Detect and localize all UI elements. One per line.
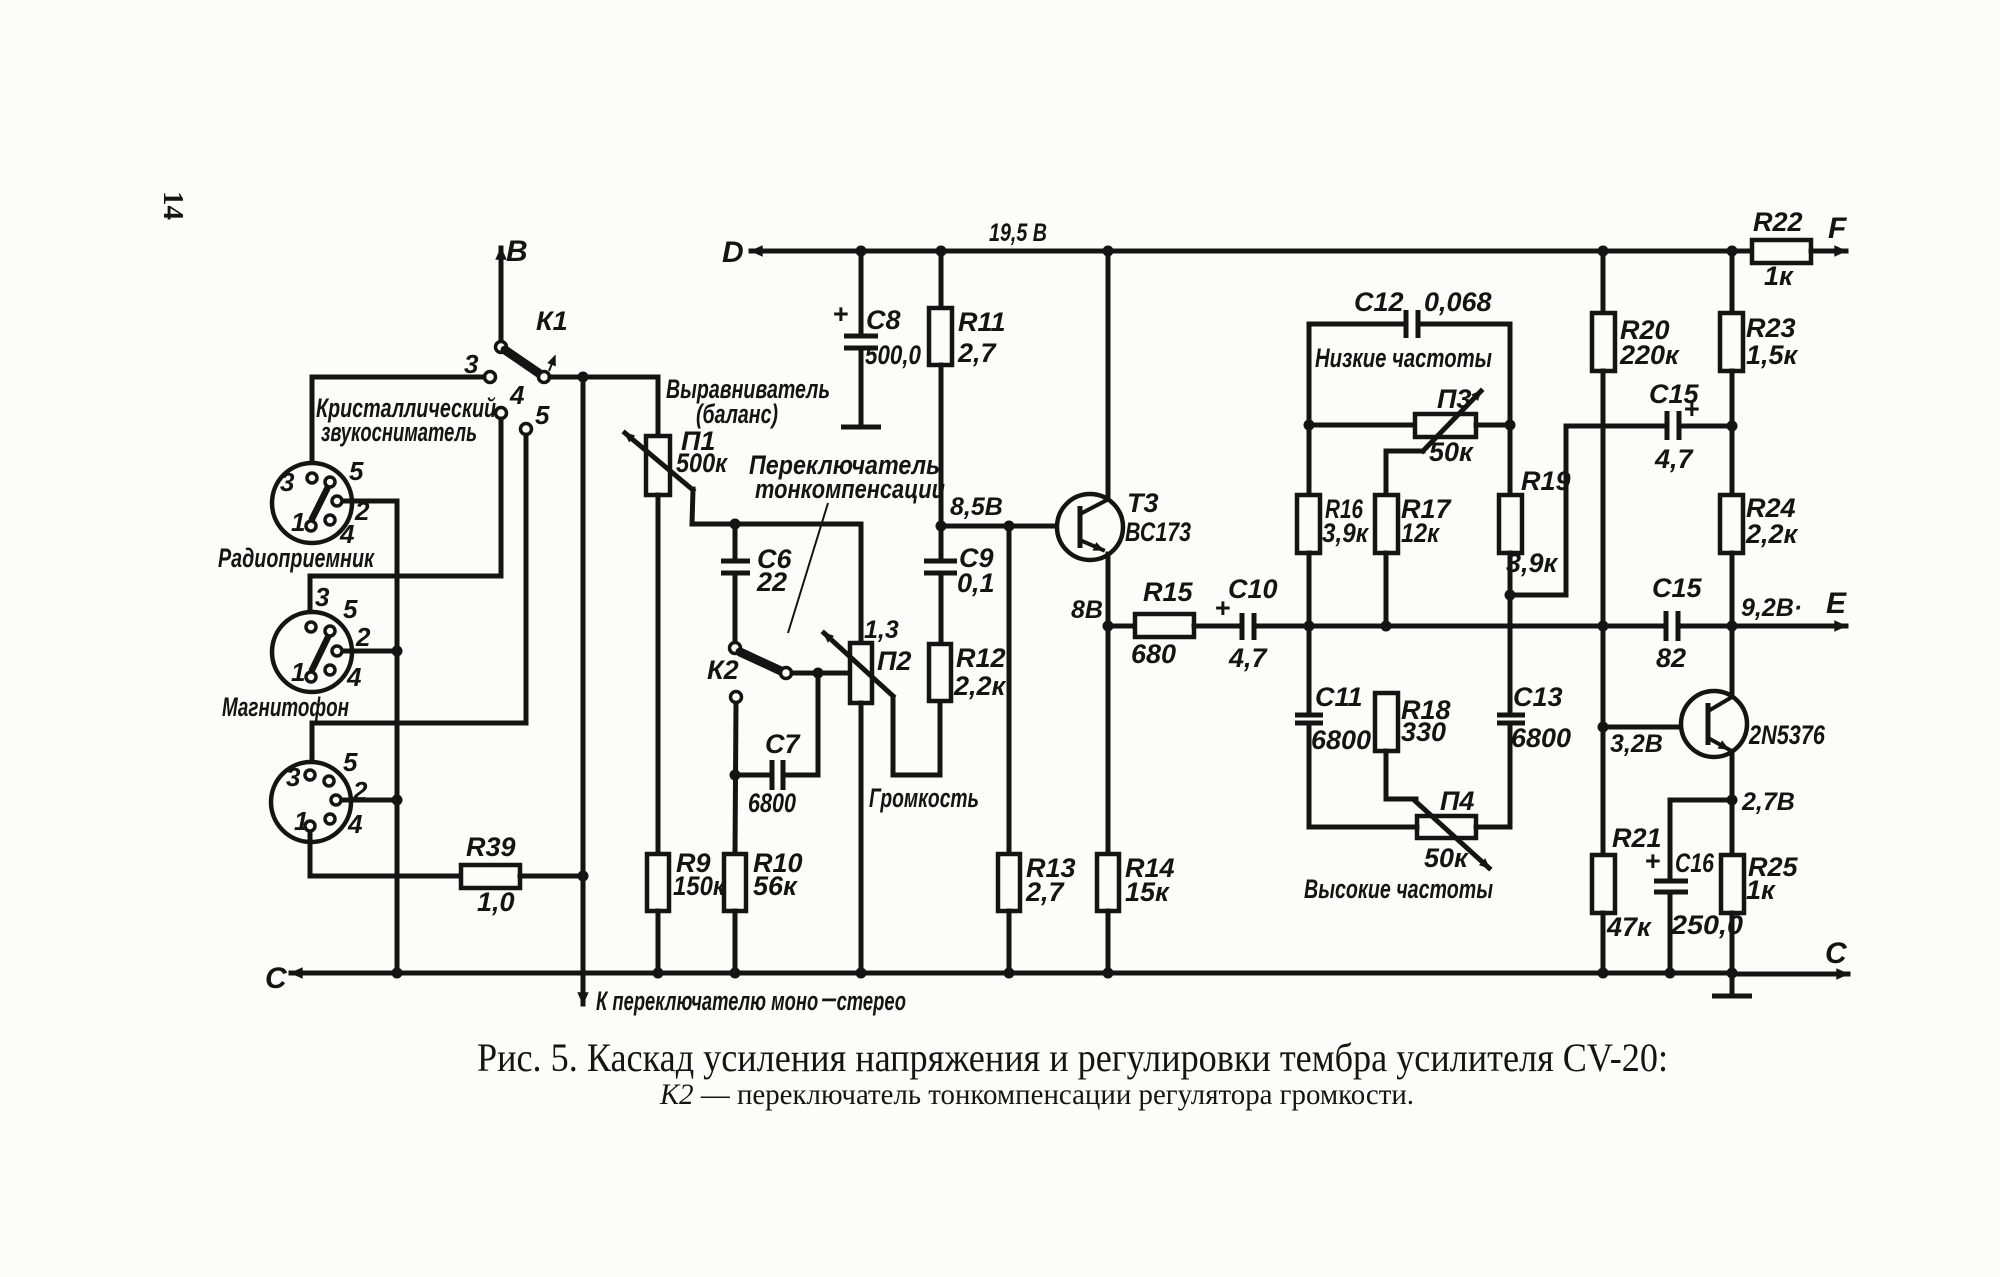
capacitor C12 0,068 (bass)	[1309, 287, 1510, 425]
junction top bus / R23	[1727, 246, 1738, 257]
contact 4 of K1	[496, 380, 526, 419]
wire T3 base line	[941, 524, 1076, 529]
svg-text:С10: С10	[1228, 574, 1278, 604]
resistor R15 680	[1108, 577, 1240, 669]
label 8В	[1071, 596, 1103, 624]
svg-text:4: 4	[509, 380, 525, 410]
svg-text:2,7: 2,7	[957, 338, 998, 368]
svg-text:2N5376: 2N5376	[1748, 720, 1826, 750]
svg-text:1к: 1к	[1746, 875, 1776, 905]
wire emitter to C16	[1670, 800, 1732, 879]
svg-text:2,7: 2,7	[1025, 877, 1066, 907]
svg-text:(баланс): (баланс)	[696, 399, 778, 429]
svg-text:Радиоприемник: Радиоприемник	[218, 543, 375, 573]
svg-text:5: 5	[343, 747, 358, 777]
caption line 1	[477, 1035, 1668, 1080]
junction top bus / C8	[856, 246, 867, 257]
junction top bus / R11	[936, 246, 947, 257]
junction rail / R13	[1004, 968, 1015, 979]
capacitor C15 82	[1652, 573, 1703, 673]
wire bass node right	[1476, 423, 1510, 428]
wire treble bottom right	[1476, 825, 1510, 830]
X1 pin 3	[280, 467, 317, 497]
wire X1 pin2 to left column	[343, 501, 397, 973]
wire P1 wiper to volume line	[692, 489, 861, 524]
capacitor C9 0,1	[924, 526, 995, 644]
connector X3 (DIN) body	[271, 762, 351, 842]
switch K2 (loudness)	[707, 643, 792, 703]
svg-text:150к: 150к	[673, 871, 726, 901]
svg-text:2,7В: 2,7В	[1741, 788, 1795, 816]
label Низкие частоты	[1315, 343, 1492, 373]
wire signal line to output stage	[1308, 624, 1663, 629]
X2 pin 1	[291, 657, 316, 687]
svg-text:R11: R11	[958, 307, 1006, 337]
potentiometer P3 50k (bass)	[1386, 384, 1481, 495]
svg-text:56к: 56к	[753, 871, 798, 901]
svg-text:К переключателю моно－стерео: К переключателю моно－стерео	[596, 986, 906, 1016]
svg-text:1,0: 1,0	[477, 887, 515, 917]
wire contact3 to connector X1	[312, 377, 484, 472]
node E (output arrow)	[1680, 587, 1847, 626]
transistor T3 BC173	[1057, 251, 1191, 626]
svg-text:47к: 47к	[1606, 912, 1652, 942]
svg-text:С: С	[265, 962, 288, 995]
svg-text:R19: R19	[1521, 466, 1571, 496]
label Высокие частоты	[1304, 874, 1493, 904]
svg-text:0,068: 0,068	[1424, 287, 1492, 317]
svg-text:4,7: 4,7	[1228, 643, 1269, 673]
svg-text:6800: 6800	[1311, 725, 1371, 755]
svg-text:тонкомпенсации: тонкомпенсации	[755, 474, 945, 504]
svg-text:Низкие частоты: Низкие частоты	[1315, 343, 1492, 373]
svg-text:1: 1	[294, 806, 308, 836]
svg-text:П3: П3	[1437, 384, 1471, 414]
label Кристаллический звукосниматель	[316, 393, 496, 447]
svg-text:3: 3	[315, 582, 330, 612]
wire common rail	[397, 971, 1732, 976]
svg-text:2: 2	[355, 622, 371, 652]
label Радиоприемник	[218, 543, 375, 573]
junction base node / base wire	[1598, 722, 1609, 733]
junction signal line / R16-C11	[1304, 621, 1315, 632]
svg-text:5: 5	[535, 400, 550, 430]
svg-text:R15: R15	[1143, 577, 1194, 607]
svg-text:15к: 15к	[1125, 877, 1170, 907]
X2 pin 3	[306, 582, 330, 632]
wire R39 to signal bus	[520, 874, 583, 879]
node C (right arrow of common rail)	[1732, 937, 1848, 974]
junction bass right / R19 / C12	[1505, 420, 1516, 431]
junction base line / R13	[1004, 521, 1015, 532]
svg-text:50к: 50к	[1424, 843, 1469, 873]
svg-text:К1: К1	[536, 306, 568, 336]
potentiometer P1 500k (balance)	[625, 377, 728, 854]
capacitor C15 4,7 (electrolytic)	[1649, 379, 1732, 474]
resistor R23 1,5k	[1720, 251, 1799, 426]
caption line 2	[659, 1078, 1414, 1111]
label Громкость	[869, 783, 979, 813]
junction top bus / R20	[1598, 246, 1609, 257]
svg-text:К2 — переключатель тонкомпенса: К2 — переключатель тонкомпенсации регуля…	[659, 1078, 1414, 1111]
junction signal line / collector	[1727, 621, 1738, 632]
wire signal bus down (to mono-stereo switch)	[581, 377, 586, 876]
X3 pin 1	[294, 806, 315, 836]
wire treble bottom left	[1309, 825, 1417, 830]
svg-text:R23: R23	[1746, 313, 1796, 343]
connector X1 (DIN) body	[272, 463, 352, 543]
junction C15 / R23-R24	[1727, 421, 1738, 432]
svg-text:2,2к: 2,2к	[953, 671, 1007, 701]
label 2,7В	[1741, 788, 1795, 816]
ground bar of C8	[841, 425, 881, 430]
svg-text:П4: П4	[1440, 786, 1474, 816]
junction rail / R21	[1598, 968, 1609, 979]
connector X2 (DIN) body	[272, 612, 352, 692]
resistor R14 15k	[1097, 626, 1175, 973]
resistor R17 12k	[1375, 494, 1453, 626]
svg-text:F: F	[1828, 212, 1847, 245]
junction rail / R25 ground	[1727, 968, 1738, 979]
svg-text:+: +	[833, 299, 849, 329]
switch K1	[496, 306, 568, 383]
X1 pin 1	[291, 507, 316, 537]
resistor R21 47k	[1592, 823, 1662, 973]
svg-text:5: 5	[343, 594, 358, 624]
svg-text:9,2В·: 9,2В·	[1741, 594, 1802, 622]
transistor Q2 2N5376	[1681, 626, 1826, 800]
svg-text:С16: С16	[1675, 848, 1715, 878]
wire base node down	[1601, 626, 1606, 855]
wire contact4 to connector X2	[310, 419, 501, 622]
svg-text:Е: Е	[1826, 587, 1847, 620]
svg-text:3: 3	[280, 467, 295, 497]
capacitor C11 6800	[1295, 626, 1371, 827]
svg-text:14: 14	[157, 191, 189, 220]
capacitor C7 6800	[735, 729, 801, 818]
contact 5 of K1	[521, 400, 551, 435]
capacitor C10 4,7	[1215, 574, 1308, 673]
svg-text:4,7: 4,7	[1654, 444, 1695, 474]
svg-text:В: В	[506, 235, 528, 268]
wire 19,5V top bus	[861, 249, 1752, 254]
X2 pin 2	[332, 622, 371, 656]
svg-text:1к: 1к	[1764, 261, 1794, 291]
wire down to C7 right plate	[786, 673, 818, 775]
junction left column / X2 pin2	[392, 646, 403, 657]
svg-text:С12: С12	[1354, 287, 1404, 317]
wire R19 bottom to C15 coupling	[1510, 426, 1663, 595]
label 3,2В	[1610, 730, 1663, 758]
svg-text:С15: С15	[1652, 573, 1703, 603]
junction K1 output / down-bus	[578, 372, 589, 383]
svg-text:2,2к: 2,2к	[1745, 519, 1799, 549]
capacitor C6 22	[721, 524, 792, 642]
svg-text:1,3: 1,3	[864, 616, 899, 644]
svg-text:500,0: 500,0	[865, 340, 921, 370]
svg-text:Рис. 5. Каскад усиления напряж: Рис. 5. Каскад усиления напряжения и рег…	[477, 1035, 1668, 1080]
svg-text:680: 680	[1131, 639, 1176, 669]
label 8,5В	[950, 493, 1003, 521]
X1 pin 4	[325, 515, 355, 549]
svg-text:С7: С7	[765, 729, 801, 759]
junction signal line / R17-R18	[1381, 621, 1392, 632]
X2 pin 5	[325, 594, 358, 636]
capacitor C16 250,0 (electrolytic)	[1645, 846, 1743, 973]
wire base to 2N5376	[1603, 725, 1705, 730]
svg-text:R12: R12	[956, 643, 1006, 673]
label Магнитофон	[222, 692, 349, 722]
svg-text:+: +	[1684, 394, 1700, 424]
wire bass node left	[1309, 423, 1415, 428]
arrow to mono-stereo switch	[581, 876, 586, 1004]
junction rail / R14	[1103, 968, 1114, 979]
resistor R22 1k (to F)	[1752, 207, 1811, 291]
svg-text:Магнитофон: Магнитофон	[222, 692, 349, 722]
X1 pin 2	[332, 496, 370, 526]
wire X3 pin1 down to R39	[310, 832, 461, 876]
svg-text:0,1: 0,1	[957, 568, 995, 598]
svg-text:С: С	[1825, 937, 1848, 970]
svg-text:82: 82	[1656, 643, 1686, 673]
X3 pin 5	[324, 747, 358, 786]
node F (output arrow)	[1811, 212, 1847, 251]
resistor R25 1k	[1721, 800, 1799, 973]
svg-text:Высокие частоты: Высокие частоты	[1304, 874, 1493, 904]
svg-text:Громкость: Громкость	[869, 783, 979, 813]
svg-text:19,5 В: 19,5 В	[989, 219, 1047, 247]
svg-text:1,5к: 1,5к	[1746, 340, 1799, 370]
resistor R12 2,2k	[929, 643, 1007, 701]
capacitor C8 500,0 (electrolytic to ground)	[833, 251, 921, 426]
svg-text:8,5В: 8,5В	[950, 493, 1003, 521]
junction R39 / signal bus	[578, 871, 589, 882]
svg-text:К2: К2	[707, 655, 739, 685]
svg-text:1: 1	[291, 657, 305, 687]
svg-text:5: 5	[349, 456, 364, 486]
potentiometer P4 50k (treble)	[1386, 786, 1489, 873]
X2 pin 4	[325, 662, 362, 692]
label 9,2В	[1741, 594, 1802, 622]
svg-text:1: 1	[291, 507, 305, 537]
svg-text:R22: R22	[1753, 207, 1803, 237]
capacitor C13 6800	[1497, 595, 1571, 827]
resistor R19 3,9k	[1499, 425, 1571, 595]
junction top bus / T3 collector	[1103, 246, 1114, 257]
svg-text:3,9к: 3,9к	[1506, 548, 1559, 578]
wire X2 pin2 to left column	[343, 649, 397, 654]
svg-text:С11: С11	[1315, 682, 1363, 712]
label К переключателю моно-стерео	[596, 986, 906, 1016]
label Переключатель тонкомпенсации	[749, 450, 945, 504]
contact 3 of K1	[464, 349, 496, 383]
svg-text:6800: 6800	[1511, 723, 1571, 753]
page number 14 (rotated)	[157, 191, 189, 220]
wire P2 wiper to R12	[893, 697, 940, 775]
node B (arrow up from K1)	[501, 235, 528, 341]
resistor R20 220k	[1592, 251, 1680, 626]
junction rail / left column	[392, 968, 403, 979]
svg-text:3: 3	[286, 762, 301, 792]
svg-text:Т3: Т3	[1127, 488, 1159, 518]
resistor R13 2,7	[998, 526, 1076, 973]
svg-text:С8: С8	[866, 305, 901, 335]
svg-text:22: 22	[756, 567, 787, 597]
svg-text:звукосниматель: звукосниматель	[321, 417, 477, 447]
svg-text:4: 4	[347, 809, 363, 839]
resistor R10 56k	[724, 848, 803, 973]
wire K1 common to bus node	[550, 375, 658, 380]
svg-text:+: +	[1645, 846, 1661, 876]
resistor R11 2,7	[929, 251, 1006, 526]
svg-text:4: 4	[346, 662, 362, 692]
junction rail / C16	[1665, 968, 1676, 979]
svg-text:6800: 6800	[748, 788, 796, 818]
wire K2 lower contact down to R10	[735, 703, 736, 854]
junction left column / X3 pin2	[392, 795, 403, 806]
X3 pin 4	[325, 809, 363, 839]
junction C7 / R10 column	[730, 770, 741, 781]
junction signal line / base divider	[1598, 621, 1609, 632]
svg-text:D: D	[722, 236, 744, 269]
callout line to K2	[788, 503, 828, 633]
X3 pin 2	[331, 776, 368, 806]
svg-text:3,2В: 3,2В	[1610, 730, 1663, 758]
wire contact5 to connector X3	[312, 435, 526, 769]
svg-text:220к: 220к	[1619, 340, 1680, 370]
junction rail / P2	[856, 968, 867, 979]
node D (output arrow, left end of 19,5V bus)	[722, 236, 861, 269]
svg-text:3,9к: 3,9к	[1322, 518, 1369, 548]
resistor R16 3,9k	[1297, 425, 1369, 626]
label 19,5 В	[989, 219, 1047, 247]
resistor R18 330	[1375, 693, 1451, 799]
potentiometer P2 (volume)	[824, 524, 911, 973]
junction bass left / R16 / C12	[1304, 420, 1315, 431]
svg-text:С13: С13	[1513, 682, 1563, 712]
junction volume line / C6	[730, 519, 741, 530]
junction rail / R9	[653, 968, 664, 979]
resistor R9 150k	[647, 848, 726, 973]
resistor R39 1,0	[461, 832, 520, 917]
wire X3 pin2 to left column	[342, 798, 397, 803]
junction R19 / C13 column	[1505, 590, 1516, 601]
junction base line / R11-C9	[936, 521, 947, 532]
svg-text:8В: 8В	[1071, 596, 1103, 624]
svg-text:330: 330	[1401, 717, 1446, 747]
svg-text:500к: 500к	[676, 448, 728, 478]
X1 key bar	[312, 487, 328, 519]
resistor R24 2,2k	[1720, 426, 1799, 626]
junction T3 emitter / R14 / R15	[1103, 621, 1114, 632]
svg-text:R39: R39	[466, 832, 516, 862]
wire K2 pole to P2 wiper node	[792, 671, 848, 676]
X2 key bar	[312, 635, 329, 670]
X1 pin 5	[325, 456, 364, 487]
junction rail / R10	[730, 968, 741, 979]
node C (left arrow of common rail)	[265, 962, 397, 995]
svg-text:12к: 12к	[1401, 518, 1440, 548]
junction emitter / C16	[1727, 795, 1738, 806]
label Выравниватель (баланс)	[666, 374, 830, 429]
svg-text:50к: 50к	[1429, 437, 1474, 467]
junction K2 wire / C7 branch	[813, 668, 824, 679]
X3 pin 3	[286, 762, 315, 792]
ground symbol	[1712, 974, 1752, 996]
svg-text:ВС173: ВС173	[1125, 517, 1191, 547]
svg-text:П2: П2	[877, 646, 911, 676]
